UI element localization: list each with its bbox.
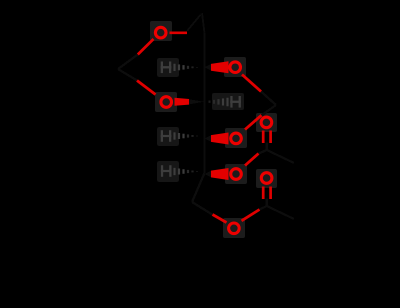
bond O6-Cacyl2 oxygen half	[242, 210, 260, 221]
halo box O6	[223, 218, 245, 238]
bond C1 apex right	[202, 13, 205, 33]
atom label H3	[230, 96, 241, 108]
atom label O1	[155, 27, 166, 38]
atom label O6	[229, 223, 240, 234]
hashed wedge C4-H4	[175, 132, 198, 139]
bond C1 apex left	[187, 13, 202, 31]
bond Cacyl2-O6 carbon half	[260, 206, 267, 210]
acetyl methyl CH3a bond	[267, 150, 294, 163]
atom label carbonyl Oc1	[261, 117, 272, 128]
bond C6-O6 carbon half	[192, 202, 213, 215]
atom label O5	[231, 169, 242, 180]
bond O3-CH2a carbon half	[118, 69, 137, 81]
bond C2-C3	[203, 67, 206, 102]
bond O5-Cacyl1 oxygen half	[245, 154, 259, 166]
bond O4-CH2b carbon half	[261, 105, 277, 116]
wedge C2-O2 dark tip	[204, 64, 211, 71]
hashed wedge C3-H3	[210, 98, 228, 107]
halo box O1	[150, 21, 172, 41]
atom label O2	[230, 62, 241, 73]
halo box H2	[157, 58, 179, 77]
hashed wedge C2-H2	[175, 64, 198, 71]
bond O2-CH2b carbon half	[261, 92, 276, 106]
wedge C4-O4 dark tip	[204, 135, 211, 142]
atom label H5	[161, 165, 172, 177]
acetyl C1' C=O black tail	[265, 143, 268, 151]
wedge C3-O3 red part	[175, 98, 190, 106]
wedge C5-O5 red part	[211, 168, 229, 180]
acetyl methyl CH3b bond	[267, 206, 294, 219]
bond C5-C6	[192, 173, 205, 202]
halo box H3	[212, 93, 244, 110]
bond C1-C2	[203, 33, 206, 67]
halo box O4	[225, 128, 247, 148]
wedge C3-O3 dark tip	[189, 99, 205, 105]
double bond Oc2=Cacyl2	[262, 187, 265, 200]
bond O6-C6 oxygen half	[213, 215, 227, 223]
wedge C4-O4 red part	[211, 133, 229, 145]
bond O4-CH2b oxygen half	[245, 115, 262, 129]
double bond Oc1=Cacyl1	[262, 131, 265, 144]
atom label carbonyl Oc2	[261, 173, 272, 184]
halo box H5	[157, 161, 179, 182]
bond O1-CH2a oxygen half	[138, 39, 154, 55]
bond O1-CH2a carbon half	[118, 55, 138, 70]
wedge C2-O2 red part	[211, 61, 229, 73]
bond C4-C5	[203, 138, 206, 173]
bond O1-C1 oxygen half	[170, 31, 188, 34]
atom label O4	[231, 133, 242, 144]
halo box O3	[155, 92, 177, 112]
atom label O3	[161, 97, 172, 108]
halo box carbonyl O Oc2	[256, 169, 277, 188]
acetyl C2' C=O black tail	[265, 199, 268, 207]
hashed wedge C5-H5	[175, 168, 198, 175]
halo box O2	[224, 57, 246, 77]
atom label H2	[161, 62, 172, 74]
halo box O5	[225, 164, 247, 184]
bond Cacyl1-O5 carbon half	[259, 150, 267, 154]
bond O2-CH2b oxygen half	[242, 75, 261, 92]
bond C3-C4	[203, 102, 206, 139]
halo box carbonyl O Oc1	[256, 113, 277, 132]
bond O3-CH2a oxygen half	[137, 81, 156, 95]
halo box H4	[157, 127, 179, 146]
wedge C5-O5 dark tip	[204, 171, 211, 178]
atom label H4	[161, 130, 172, 142]
